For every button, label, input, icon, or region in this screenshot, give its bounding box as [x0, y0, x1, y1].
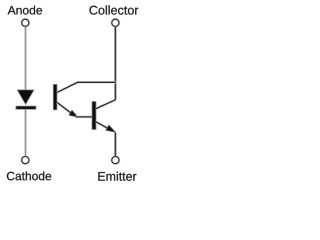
wire Q2 emitter to emitter terminal [114, 133, 117, 156]
node label Cathode [7, 172, 51, 181]
wire collector terminal to Q2 collector junction [114, 27, 117, 100]
node label Collector [90, 5, 139, 14]
phototransistor Q1 [53, 82, 116, 117]
terminal Collector [112, 19, 119, 26]
node label Anode [8, 6, 43, 15]
transistor Q2 [92, 100, 115, 132]
wire Q1 emitter to Q2 base [76, 116, 93, 119]
terminal Cathode [22, 157, 29, 164]
wire anode terminal to LED anode [24, 27, 27, 91]
LED D1 [16, 90, 36, 109]
wire LED cathode to cathode terminal [24, 109, 27, 156]
node label Emitter [98, 172, 136, 181]
terminal Anode [22, 19, 29, 26]
terminal Emitter [112, 157, 119, 164]
